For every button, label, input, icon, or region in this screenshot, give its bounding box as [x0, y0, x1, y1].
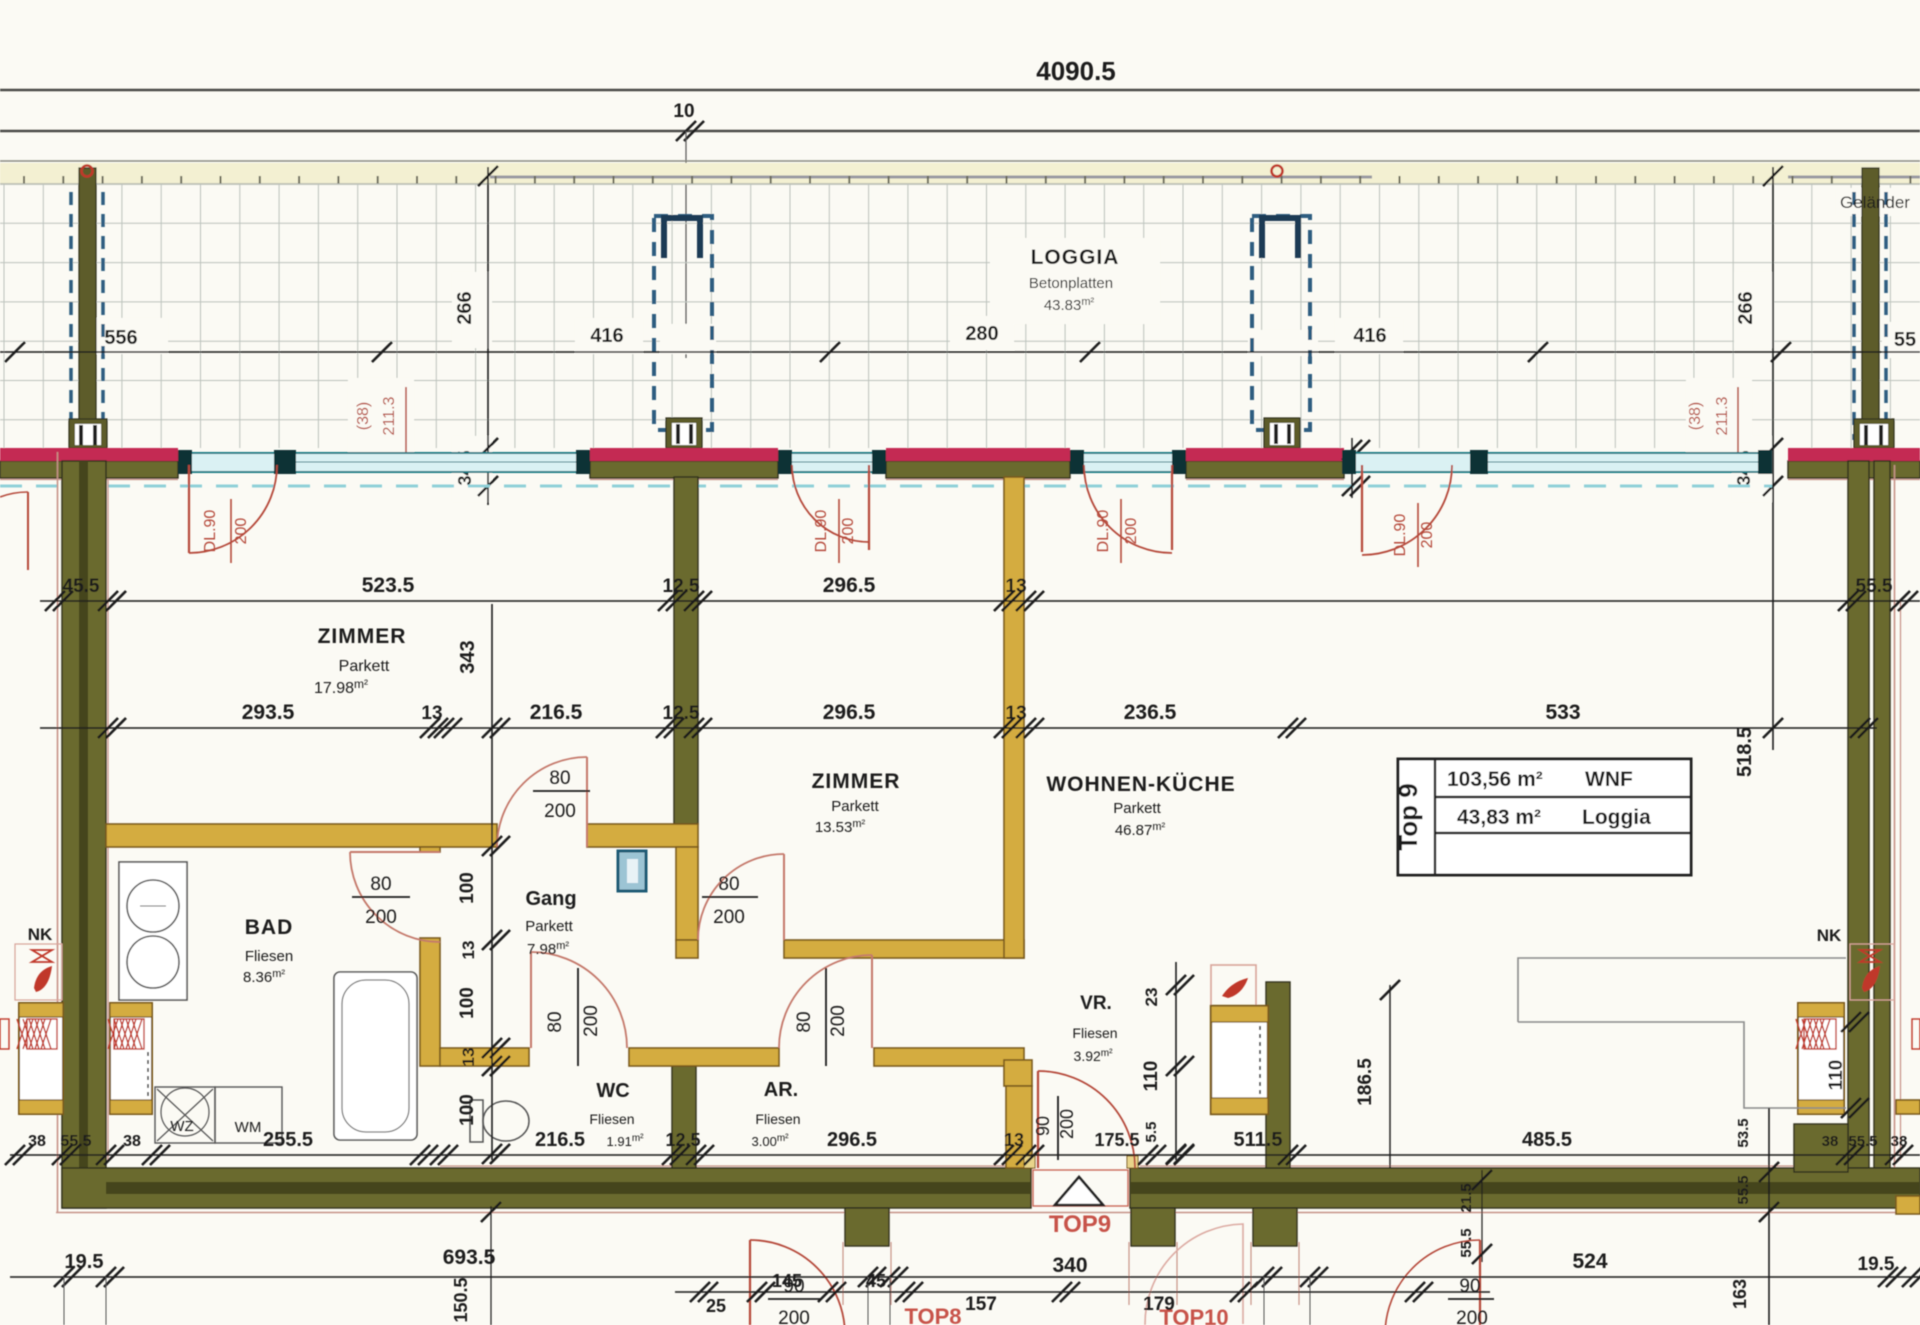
- svg-text:WOHNEN-KÜCHE: WOHNEN-KÜCHE: [1046, 773, 1235, 796]
- door ZIMMER1 80/200: [586, 757, 588, 847]
- svg-text:Top 9: Top 9: [1393, 783, 1423, 850]
- loggia door kitchen2 DL90/200: [1361, 465, 1363, 552]
- yellow wall I6 (ZIMMER2 / kitchen): [1004, 477, 1024, 958]
- svg-text:Betonplatten: Betonplatten: [1029, 275, 1113, 292]
- svg-text:216.5: 216.5: [530, 701, 583, 724]
- svg-text:163: 163: [1730, 1279, 1750, 1309]
- svg-text:533: 533: [1545, 701, 1580, 724]
- window V1: [192, 453, 576, 472]
- toilet: [470, 1100, 483, 1142]
- shaft left outside: [19, 1003, 63, 1114]
- svg-text:12.5: 12.5: [665, 1130, 700, 1150]
- svg-text:200: 200: [1456, 1308, 1488, 1325]
- svg-text:TOP8: TOP8: [904, 1304, 961, 1325]
- svg-text:511.5: 511.5: [1234, 1129, 1283, 1151]
- shaft right inside: [1798, 1003, 1844, 1114]
- svg-text:55: 55: [1894, 329, 1916, 351]
- svg-text:296.5: 296.5: [827, 1129, 877, 1151]
- svg-text:266: 266: [454, 291, 476, 324]
- svg-text:WNF: WNF: [1585, 768, 1633, 791]
- window V3: [1084, 453, 1172, 472]
- svg-text:55.5: 55.5: [60, 1133, 91, 1150]
- svg-text:13: 13: [459, 941, 478, 960]
- Top 9 area table: [1398, 759, 1691, 875]
- loggia door ZIMMER1 DL90/200: [188, 465, 190, 553]
- svg-text:45: 45: [866, 1271, 886, 1291]
- yellow wall I3 (ZIMMER1 / BAD+Gang): [106, 824, 497, 847]
- svg-text:38: 38: [123, 1133, 141, 1150]
- yellow slivers right edge: [1896, 1196, 1920, 1214]
- svg-text:13: 13: [459, 1048, 478, 1067]
- svg-text:Fliesen: Fliesen: [245, 948, 293, 965]
- svg-text:293.5: 293.5: [242, 701, 295, 724]
- svg-text:Fliesen: Fliesen: [589, 1111, 634, 1127]
- svg-text:43,83 m²: 43,83 m²: [1457, 806, 1541, 829]
- kitchen counter: [1518, 958, 1846, 1108]
- vertical dim line x=1773: [1772, 167, 1774, 750]
- svg-text:(38): (38): [1687, 402, 1704, 430]
- svg-text:200: 200: [544, 801, 576, 822]
- svg-text:100: 100: [457, 872, 478, 904]
- svg-text:12.5: 12.5: [663, 703, 700, 724]
- svg-text:38: 38: [1891, 1133, 1908, 1150]
- door AR 80/200: [871, 955, 873, 1048]
- post P1 foot: [69, 419, 107, 448]
- electrical panel Gang: [618, 851, 646, 891]
- door BAD 80/200: [350, 851, 440, 853]
- svg-text:55.5: 55.5: [1848, 1133, 1877, 1150]
- yellow wall VR west: [1004, 1060, 1032, 1086]
- svg-text:13: 13: [1004, 1130, 1024, 1150]
- svg-text:175.5: 175.5: [1094, 1130, 1139, 1150]
- svg-text:Parkett: Parkett: [831, 798, 879, 815]
- svg-text:Parkett: Parkett: [339, 658, 390, 675]
- svg-text:110: 110: [1141, 1061, 1162, 1092]
- post P4 foot: [1854, 419, 1894, 448]
- svg-text:4090.5: 4090.5: [1036, 56, 1116, 86]
- tile joint marks: [24, 176, 1910, 184]
- svg-text:23: 23: [1142, 988, 1161, 1007]
- svg-text:AR.: AR.: [764, 1079, 798, 1101]
- svg-text:DL.90: DL.90: [1095, 510, 1112, 553]
- shaft left inside: [110, 1003, 152, 1114]
- red railing dims left: [405, 387, 407, 452]
- svg-text:80: 80: [718, 874, 739, 895]
- svg-text:45.5: 45.5: [63, 576, 100, 597]
- loggia door kitchen DL90/200: [1171, 465, 1173, 550]
- WZ box: [155, 1087, 215, 1143]
- svg-text:BAD: BAD: [245, 916, 294, 939]
- dimension row bottom overall: [10, 1276, 1920, 1278]
- svg-text:343: 343: [457, 640, 479, 673]
- right party wall: [1848, 461, 1869, 1168]
- yellow wall I8b (Gang east upper): [676, 847, 698, 940]
- vertical dim line x=488 (266 / 34.5): [487, 167, 489, 505]
- svg-text:145: 145: [772, 1271, 802, 1291]
- interior olive wall I2 (WC/AR divider): [672, 1066, 696, 1168]
- svg-text:DL.90: DL.90: [1392, 514, 1409, 557]
- svg-text:38: 38: [28, 1133, 46, 1150]
- svg-text:DL.90: DL.90: [202, 510, 219, 553]
- svg-text:211.3: 211.3: [1714, 396, 1731, 435]
- door WC 80/200: [530, 952, 532, 1048]
- svg-text:266: 266: [1735, 291, 1757, 324]
- wall end ticks x=1352: [1351, 438, 1353, 498]
- second top line: [0, 130, 1920, 133]
- TOP9 threshold red frame: [1033, 1170, 1128, 1206]
- loggia railing post P1: [71, 192, 103, 440]
- svg-text:110: 110: [1826, 1060, 1847, 1091]
- loggia railing post P4: [1854, 192, 1886, 440]
- svg-text:340: 340: [1052, 1254, 1087, 1277]
- svg-text:200: 200: [365, 907, 397, 928]
- svg-text:200: 200: [840, 518, 857, 545]
- loggia top edge band: [0, 160, 1920, 162]
- svg-text:55.5: 55.5: [1458, 1228, 1475, 1257]
- TOP9 triangle: [1055, 1177, 1103, 1205]
- svg-text:80: 80: [545, 1011, 566, 1032]
- loggia tile grid: [0, 184, 1920, 448]
- railing fixing circle left: [82, 166, 93, 177]
- svg-text:WC: WC: [596, 1080, 629, 1102]
- vertical dim chain left-centre: [491, 604, 493, 1160]
- svg-text:ZIMMER: ZIMMER: [812, 770, 901, 793]
- svg-text:90: 90: [1033, 1116, 1053, 1136]
- TOP10 door faint arc: [1145, 1224, 1243, 1325]
- svg-text:LOGGIA: LOGGIA: [1031, 246, 1120, 269]
- svg-text:216.5: 216.5: [535, 1129, 585, 1151]
- svg-text:524: 524: [1572, 1250, 1607, 1273]
- svg-text:Gang: Gang: [525, 888, 576, 910]
- svg-text:13: 13: [421, 703, 442, 724]
- entrance door TOP9 90/200: [1037, 1071, 1039, 1168]
- window V4: [1356, 453, 1758, 472]
- svg-text:Loggia: Loggia: [1582, 806, 1651, 829]
- svg-text:VR.: VR.: [1080, 993, 1112, 1014]
- yellow wall I4 (BAD east): [420, 847, 440, 852]
- loggia dimension line: [0, 351, 1920, 353]
- washbasin BAD: [119, 862, 187, 1000]
- svg-text:296.5: 296.5: [823, 574, 876, 597]
- svg-text:200: 200: [713, 907, 745, 928]
- svg-text:200: 200: [581, 1005, 602, 1037]
- svg-text:280: 280: [965, 323, 998, 345]
- yellow wall I5 (Gang / WC+AR): [440, 1048, 529, 1066]
- svg-text:100: 100: [457, 1094, 478, 1126]
- dashed threshold line: [0, 485, 1772, 488]
- VR shaft pink box: [1211, 965, 1256, 1006]
- svg-text:Parkett: Parkett: [525, 918, 573, 935]
- dimension row rooms bottom: [10, 1154, 1920, 1156]
- svg-text:80: 80: [370, 874, 391, 895]
- svg-text:55.5: 55.5: [1856, 576, 1893, 597]
- bottom outer wall: [62, 1168, 1031, 1208]
- svg-text:25: 25: [706, 1296, 726, 1316]
- svg-text:Parkett: Parkett: [1113, 800, 1161, 817]
- svg-text:WZ: WZ: [170, 1118, 193, 1135]
- svg-text:150.5: 150.5: [451, 1277, 471, 1322]
- VR east olive wall: [1266, 982, 1290, 1168]
- post P2 foot: [666, 418, 702, 448]
- svg-text:19.5: 19.5: [1858, 1254, 1895, 1275]
- svg-text:12.5: 12.5: [663, 576, 700, 597]
- wall filler below right shaft: [1794, 1124, 1848, 1172]
- svg-text:186.5: 186.5: [1355, 1058, 1376, 1106]
- railing fixing circle mid: [1272, 166, 1283, 177]
- svg-text:236.5: 236.5: [1124, 701, 1177, 724]
- svg-text:179: 179: [1143, 1294, 1175, 1315]
- VR shaft yellow box: [1211, 1006, 1268, 1114]
- svg-text:200: 200: [778, 1308, 810, 1325]
- bathtub: [334, 972, 417, 1140]
- svg-text:100: 100: [457, 987, 478, 1019]
- svg-text:200: 200: [1123, 518, 1140, 545]
- svg-text:TOP9: TOP9: [1049, 1211, 1111, 1238]
- svg-text:523.5: 523.5: [362, 574, 415, 597]
- svg-text:(38): (38): [355, 402, 372, 430]
- door ZIMMER2 80/200: [783, 854, 785, 940]
- svg-text:200: 200: [233, 518, 250, 545]
- glass divider P2 (dashed): [654, 216, 712, 430]
- svg-text:518.5: 518.5: [1734, 727, 1756, 777]
- svg-text:NK: NK: [28, 925, 53, 944]
- svg-text:53.5: 53.5: [1735, 1118, 1752, 1147]
- svg-text:13: 13: [1005, 703, 1026, 724]
- svg-text:200: 200: [1057, 1109, 1077, 1139]
- svg-text:485.5: 485.5: [1522, 1129, 1572, 1151]
- svg-text:200: 200: [1419, 522, 1436, 549]
- svg-text:NK: NK: [1817, 926, 1842, 945]
- svg-text:80: 80: [549, 768, 570, 789]
- svg-text:90: 90: [1459, 1276, 1480, 1297]
- svg-text:Fliesen: Fliesen: [755, 1111, 800, 1127]
- svg-text:693.5: 693.5: [443, 1246, 496, 1269]
- svg-text:38: 38: [1822, 1133, 1839, 1150]
- vertical dim chain x=1769: [1768, 1108, 1770, 1325]
- vertical dim chain VR: [1175, 962, 1177, 1160]
- TOP10 right door: [1479, 1240, 1481, 1325]
- window V2: [792, 453, 872, 472]
- dimension row 1: [40, 600, 1920, 602]
- top dimension line 4090.5: [0, 89, 1920, 92]
- interior olive wall I1 (ZIMMER divider): [674, 477, 698, 824]
- yellow wall I7 (ZIMMER2 bottom): [676, 940, 698, 958]
- svg-text:157: 157: [965, 1294, 997, 1315]
- wall stubs below bottom wall: [845, 1208, 889, 1246]
- TOP9 door jambs: [1024, 1156, 1035, 1168]
- railing glass line: [490, 176, 1372, 179]
- vertical dim 186.5 kitchen: [1389, 985, 1391, 1168]
- svg-text:55.5: 55.5: [1735, 1175, 1752, 1204]
- dimension row 2: [40, 727, 1877, 729]
- svg-text:416: 416: [590, 325, 623, 347]
- WM box: [215, 1087, 282, 1143]
- svg-text:Geländer: Geländer: [1840, 193, 1910, 212]
- svg-text:200: 200: [828, 1005, 849, 1037]
- neighbour door left edge: [27, 492, 29, 570]
- svg-text:10: 10: [673, 101, 694, 122]
- south wall segments (crimson cap + olive): [0, 461, 178, 478]
- dimension row corridor: [675, 1291, 1490, 1293]
- neighbour shaft sliver left edge: [0, 1019, 9, 1049]
- svg-text:80: 80: [794, 1011, 815, 1032]
- svg-text:13: 13: [1005, 576, 1026, 597]
- loggia door ZIMMER2 DL90/200: [868, 465, 870, 550]
- svg-text:5.5: 5.5: [1143, 1122, 1160, 1143]
- svg-text:103,56 m²: 103,56 m²: [1447, 768, 1543, 791]
- vertical dim right wall: [1841, 1012, 1861, 1032]
- svg-text:19.5: 19.5: [65, 1251, 104, 1273]
- svg-text:ZIMMER: ZIMMER: [318, 625, 407, 648]
- svg-text:DL.90: DL.90: [813, 510, 830, 553]
- svg-text:Fliesen: Fliesen: [1072, 1025, 1117, 1041]
- left outer wall: [57, 452, 59, 1212]
- red railing dims right: [1737, 387, 1739, 452]
- svg-text:255.5: 255.5: [263, 1129, 313, 1151]
- svg-text:296.5: 296.5: [823, 701, 876, 724]
- TOP8 door: [749, 1240, 751, 1325]
- neighbour shaft sliver right edge: [1912, 1019, 1920, 1049]
- post P3 foot: [1264, 418, 1300, 448]
- svg-text:416: 416: [1353, 325, 1386, 347]
- svg-text:556: 556: [104, 327, 137, 349]
- svg-text:211.3: 211.3: [381, 396, 398, 435]
- svg-text:WM: WM: [235, 1119, 262, 1136]
- glass divider P3 (dashed): [1252, 216, 1310, 430]
